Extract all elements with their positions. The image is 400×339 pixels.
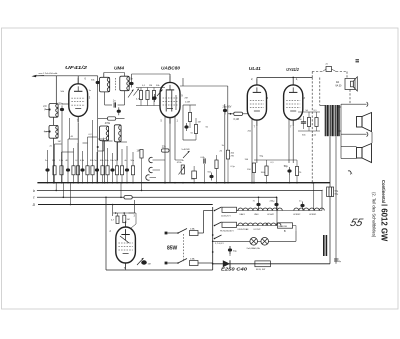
potentiometer P1 volume: [177, 162, 185, 175]
label clutter group 4: [185, 98, 275, 165]
fuse F1: [190, 211, 213, 236]
wire IFT1 top feed: [104, 73, 125, 78]
wire U3 screen down: [251, 118, 253, 184]
tube U5 pin 7 label: [124, 266, 126, 270]
wire magic-eye bottom rail: [106, 269, 213, 270]
tube U4 UY41/2 label: [286, 67, 299, 72]
label antenna feed note: [39, 72, 59, 75]
svg-text:0,1µ: 0,1µ: [231, 166, 236, 168]
svg-text:ǀ 6012 GW: ǀ 6012 GW: [380, 204, 389, 242]
wire LS2 feed bottom: [341, 158, 357, 160]
wire right rail 2: [335, 136, 337, 264]
coil L4 IFT1 secondary: [120, 76, 129, 91]
wire row link 2: [68, 138, 78, 140]
fuse F5 UABC80 box: [278, 223, 297, 233]
resistor row item 6 0,2: [75, 143, 79, 184]
label pin digits: [85, 78, 306, 234]
resistor R3: [146, 88, 149, 106]
label Continental title (rotated): [381, 180, 386, 203]
resistor R9 300: [261, 160, 268, 183]
node mains terminal 2: [165, 262, 178, 265]
svg-text:85W: 85W: [167, 246, 178, 252]
capacitor C3 100n: [58, 103, 65, 114]
wire bottom rail: [213, 263, 330, 265]
coil L10 heater UCB3/2: [293, 208, 309, 216]
svg-text:UAF1: UAF1: [240, 213, 246, 216]
lamp LA1: [250, 238, 258, 246]
resistor R17 40k 2W: [226, 150, 235, 183]
wire jack links: [150, 160, 166, 178]
coil L12 heater UY41: [238, 223, 254, 231]
tube U1 pin 7 label: [77, 119, 79, 123]
label 6012 GW title (rotated): [380, 204, 389, 242]
resistor R21 68ohm: [255, 261, 271, 271]
wire right rail 1: [329, 136, 331, 264]
svg-text:0,1M: 0,1M: [234, 118, 239, 121]
resistor R20: [123, 213, 130, 223]
wire U1 grid left: [62, 103, 69, 105]
svg-text:1M: 1M: [149, 85, 152, 87]
svg-text:UL41: UL41: [249, 66, 262, 71]
resistor row item 12 30k: [105, 148, 109, 184]
resistor R22 mains dropper (dark bars): [324, 235, 327, 256]
wire antenna line to anode rail: [36, 76, 98, 78]
coil L1 (antenna coil): [49, 104, 58, 118]
svg-text:E250 C40: E250 C40: [221, 267, 248, 272]
tube U1 UF41/2 label: [65, 65, 88, 70]
label 20n 50V: [223, 106, 232, 109]
node terminal p: [348, 171, 353, 175]
node speaker terminal top: [367, 102, 368, 107]
wire U2 pins down 1: [164, 117, 166, 184]
coil L6 IFT1b secondary: [114, 125, 121, 142]
switch S5 row3: [214, 235, 225, 245]
resistor R12: [314, 110, 319, 131]
resistor R16: [215, 155, 218, 183]
capacitor row item 13 10n: [110, 153, 115, 184]
tube U1 pin 3 label: [89, 96, 91, 100]
capacitor row item 7 4,5k: [80, 151, 85, 184]
tube U2 pin 9 label: [181, 94, 183, 98]
resistor R7 0,1M: [234, 112, 243, 121]
wire L5 down to bus: [104, 141, 106, 184]
wire U2 pins down 3: [174, 117, 176, 161]
node jack J3: [146, 175, 150, 180]
trimmer capacitor C23: [157, 90, 163, 97]
coil L2 (oscillator coil): [49, 125, 58, 138]
wire U2 top to plate rail: [132, 74, 171, 80]
svg-text:+: +: [322, 188, 324, 192]
svg-text:UCH42: UCH42: [267, 214, 275, 216]
coil L7 heater UF41: [238, 208, 253, 216]
capacitor row item 4 40: [65, 139, 70, 184]
wire heater row1: [237, 210, 323, 212]
tube U3 pin 7 label: [254, 125, 256, 129]
svg-text:0,1M: 0,1M: [185, 102, 190, 104]
tube U3 pin 2 label: [251, 77, 253, 81]
wire U3 plate top: [257, 77, 312, 79]
wire row link 6: [83, 142, 88, 144]
fuse F2: [190, 257, 213, 265]
wire row link 5: [117, 141, 127, 143]
resistor row item 2 1M: [52, 144, 56, 184]
transformer T1 output transformer: [325, 105, 339, 136]
wire dashed vertical 1: [311, 78, 313, 184]
wire drop x141: [141, 183, 143, 192]
svg-text:110/125 V: 110/125 V: [221, 216, 231, 218]
wire lamp row: [212, 241, 250, 243]
tube U3 UL41: [247, 79, 266, 126]
resistor R10 70: [295, 160, 302, 183]
svg-text:UABC80: UABC80: [161, 65, 181, 70]
capacitor row item 16 4n: [124, 146, 129, 184]
wire x313 drop: [313, 182, 315, 211]
resistor R13 1M: [137, 150, 144, 183]
label UM4: [114, 65, 125, 70]
wire bus b: [37, 189, 322, 191]
svg-text:UM4: UM4: [114, 65, 125, 70]
coil L14 heater: [254, 223, 282, 231]
svg-text:UY41/2: UY41/2: [286, 67, 299, 72]
capacitor C21 4u: [334, 259, 342, 263]
wire cathode rail: [254, 159, 297, 161]
node jack J2: [149, 167, 153, 172]
svg-text:2,7-5,8 V: 2,7-5,8 V: [215, 243, 224, 245]
node b label: [33, 189, 35, 193]
resistor row item 17 10n: [130, 152, 134, 184]
resistor R15 300: [191, 166, 196, 183]
capacitor row item 10 5n: [94, 152, 99, 184]
wire L6 down: [117, 142, 119, 160]
wire drop to b: [55, 183, 57, 192]
svg-text:b: b: [33, 189, 35, 193]
wire detector links: [183, 105, 196, 140]
svg-text:1M: 1M: [148, 264, 151, 266]
label 85W: [167, 246, 178, 252]
wire under U1 extras: [70, 118, 104, 151]
tube U4 UY41/2: [284, 79, 303, 126]
svg-text:(2. Teil des Schaltbildes): (2. Teil des Schaltbildes): [372, 192, 377, 238]
node bus junction dots: [97, 182, 298, 184]
wire U4 cathode down: [292, 126, 294, 163]
wire lamp mid: [258, 240, 261, 242]
svg-text:68 Ω, 5W: 68 Ω, 5W: [256, 269, 266, 271]
tube U3 UL41 label: [249, 66, 262, 71]
svg-text:HO/220/240 V: HO/220/240 V: [220, 231, 234, 233]
wire T1 primary feed: [320, 105, 326, 107]
capacitor C10 20n: [223, 107, 227, 115]
svg-text:0,6A: 0,6A: [190, 257, 195, 260]
resistor R8 150: [247, 163, 256, 184]
diode D1 E250 C40: [223, 260, 230, 267]
label clutter group 2: [220, 131, 318, 169]
wire switch link dashed: [183, 234, 185, 262]
svg-text:2,: 2,: [296, 77, 298, 81]
resistor R5: [188, 105, 191, 128]
wire U2 anode right: [180, 85, 228, 87]
capacitor C19 30u: [228, 246, 238, 256]
wire R7 to U3 grid: [228, 113, 248, 115]
switch S3 row1: [214, 207, 222, 211]
wire LS2 feed top: [341, 134, 357, 158]
wire c end drop: [276, 197, 278, 225]
wire drop to c: [63, 183, 65, 198]
resistor R6: [194, 118, 197, 140]
wire magic-eye top rail: [113, 212, 135, 214]
capacitor C24 coupling box: [323, 64, 337, 72]
label 55 (handwritten): [349, 217, 365, 229]
wire row link 4: [103, 140, 113, 142]
speaker LS2: [357, 144, 372, 163]
svg-text:UCB3/1: UCB3/1: [309, 214, 317, 216]
svg-text:0,6A: 0,6A: [190, 227, 195, 230]
label clutter group 1: [61, 85, 201, 135]
svg-text:UABC80: UABC80: [279, 225, 288, 228]
capacitor C7 10n: [129, 80, 133, 88]
svg-text:2x0,65A/0,1A: 2x0,65A/0,1A: [247, 247, 261, 250]
wire T1 to speaker rail bottom: [338, 131, 366, 134]
svg-text:UF41/2UAF: UF41/2UAF: [238, 228, 250, 231]
wire bus c: [37, 196, 277, 198]
capacitor C20 50+50u electrolytic: [322, 187, 339, 197]
label 4ohm VA: [335, 81, 342, 87]
wire IFT1 core (dashed): [115, 78, 117, 91]
svg-text:1M: 1M: [127, 219, 130, 221]
wire under IFT1: [98, 118, 125, 120]
svg-text:p,: p,: [351, 172, 353, 175]
svg-text:5-40/3/8: 5-40/3/8: [182, 149, 191, 151]
svg-text:c: c: [33, 196, 35, 200]
svg-text:Continental: Continental: [381, 180, 386, 203]
coil L11 heater UCB3/1: [309, 208, 324, 216]
switch S1 mains upper: [177, 229, 189, 234]
coil L5 IFT1b primary: [100, 126, 109, 141]
capacitor C4 1n: [113, 100, 116, 108]
capacitor C14: [201, 157, 206, 183]
wire IFT1 link: [105, 91, 125, 105]
speaker LS1: [357, 113, 372, 132]
coil L13 heater UAF42: [253, 223, 268, 225]
svg-text:UF41/2: UF41/2: [65, 65, 88, 70]
tube U5 UM4 magic eye: [116, 221, 136, 269]
label lamp rating: [247, 247, 261, 250]
potentiometer P2 with arrow: [137, 258, 151, 266]
wire U4 anode down: [288, 118, 290, 163]
wire heater row2: [237, 225, 278, 227]
svg-text:20n 50V: 20n 50V: [223, 106, 232, 109]
svg-text:vom 1.Teil d.Schaltb.: vom 1.Teil d.Schaltb.: [39, 72, 59, 75]
coil L3 IFT1 primary: [100, 77, 110, 92]
label E250 C40: [221, 267, 248, 272]
wire row link 3: [88, 136, 98, 138]
svg-text:50µ: 50µ: [284, 165, 289, 168]
svg-text:VA 30: VA 30: [335, 84, 342, 87]
svg-text:UY41/2: UY41/2: [254, 229, 262, 231]
fuse F3 voltage tap 110/125V: [221, 207, 238, 217]
trimmer C13 5-40: [182, 149, 191, 158]
node mains terminal 1: [165, 232, 178, 235]
tube U1 UF41/2: [69, 78, 88, 123]
capacitor C2 4n: [44, 130, 51, 133]
wire right margin drop: [371, 132, 373, 143]
switch S4 row2: [214, 222, 222, 226]
wire row link 1: [55, 143, 62, 145]
capacitor C8 blob: [152, 94, 156, 102]
wire dashed to socket: [336, 72, 347, 79]
resistor R2: [139, 88, 142, 106]
wire antenna drop to coil L1: [55, 76, 57, 104]
trimmer arrow: [134, 89, 140, 96]
capacitor C15 50n: [208, 172, 214, 181]
capacitor C1 2,0F: [43, 105, 50, 112]
svg-text:UCB3/2: UCB3/2: [293, 214, 301, 216]
resistor row item 15: [120, 149, 123, 184]
resistor R14 22k: [162, 146, 170, 153]
capacitor C16 7n: [253, 197, 261, 211]
resistor row item 5: [72, 148, 75, 184]
tube U2 UABC80: [160, 76, 180, 123]
svg-text:1M: 1M: [198, 122, 201, 124]
capacitor C22 50k blob: [91, 79, 100, 87]
wire magic-eye frame right: [134, 200, 136, 213]
svg-text:1M: 1M: [52, 160, 55, 162]
wire mid links: [175, 160, 205, 166]
wire U3 cathode down: [256, 126, 258, 163]
trimmer capacitor C5: [128, 90, 134, 98]
resistor row item 11 40k: [100, 141, 104, 184]
svg-text:1M: 1M: [58, 141, 61, 143]
svg-text:240µ: 240µ: [270, 201, 276, 203]
label 10n cap: [129, 78, 134, 81]
wire U4 top to dashed rail: [292, 78, 294, 79]
capacitor C18 1n: [299, 201, 305, 211]
lamp LA2: [261, 238, 269, 246]
wire under cluster: [136, 105, 160, 107]
speaker LS3 external socket: [345, 60, 359, 104]
svg-text:2,: 2,: [251, 77, 253, 81]
wire grid rail: [136, 87, 165, 89]
wire magic-eye left rail: [105, 197, 107, 271]
wire long vertical k2: [227, 86, 229, 150]
wire main HT bus (top horizontal rail): [37, 182, 330, 184]
coil L8 heater UM4: [253, 208, 268, 216]
resistor R1 470k: [105, 117, 116, 125]
resistor R18 inline on bus c: [124, 196, 132, 199]
coil L9 heater UCH42: [267, 208, 282, 216]
resistor row item 14 50k: [114, 142, 118, 184]
svg-text:2M: 2M: [185, 98, 188, 100]
label clutter group 3: [50, 134, 123, 148]
wire U2 pins down 2: [169, 118, 171, 183]
wire drop x121: [120, 183, 122, 198]
wire long vertical k1: [224, 104, 226, 184]
wire T1 to speaker rail top: [338, 104, 366, 134]
tube U4 pin 2 label: [296, 77, 298, 81]
resistor row item 3 1,5k: [59, 152, 64, 184]
wire drop to D: [70, 183, 72, 206]
fuse F4 voltage tap 220/240V: [220, 222, 238, 232]
capacitor C9 blob: [184, 123, 188, 131]
wire U1 cathode down: [77, 123, 79, 184]
tube U4 pin 7 label: [290, 125, 292, 129]
wire row top rail: [62, 151, 74, 153]
node antenna input arrow: [32, 75, 45, 77]
wire mains vertical rail: [212, 207, 214, 270]
resistor row item 8: [86, 137, 89, 184]
resistor R19: [111, 213, 119, 224]
wire grid stub into U1: [77, 76, 79, 84]
node D label: [33, 203, 36, 207]
wire L1 to L2: [53, 117, 55, 125]
wire lamp right: [269, 231, 297, 241]
wire dashed horizontal to ext speaker: [312, 72, 322, 78]
capacitor C12 300p: [298, 116, 306, 129]
tube U2 UABC80 label: [161, 65, 181, 70]
capacitor C17 240p: [270, 197, 279, 211]
wire L2 down to bus: [53, 138, 55, 183]
wire into eye grid: [129, 213, 137, 228]
capacitor row item 1 2n: [45, 150, 50, 184]
wire dashed vertical 2: [319, 78, 321, 106]
resistor R11: [306, 110, 311, 131]
svg-text:470k: 470k: [105, 122, 111, 125]
capacitor C6 blob: [117, 107, 121, 115]
wire bus D: [38, 204, 213, 206]
label subtitle 2. Teil (rotated): [372, 192, 377, 238]
resistor R4: [152, 88, 155, 106]
wire magic-eye frame left: [112, 204, 114, 216]
switch S2 mains lower: [177, 259, 187, 264]
wire feedback rail: [298, 112, 320, 131]
wire C3 to bus: [61, 114, 63, 184]
resistor row item 9 50k: [90, 146, 94, 184]
wire row1 to bus b: [321, 190, 323, 210]
node jack J1: [149, 157, 153, 162]
node speaker terminal bottom: [367, 132, 368, 137]
svg-text:1M: 1M: [137, 150, 140, 153]
wire U2 anode stub: [182, 78, 184, 86]
node c label: [33, 196, 35, 200]
capacitor C11 50u: [284, 165, 292, 183]
wire U1 anode right: [97, 78, 99, 183]
